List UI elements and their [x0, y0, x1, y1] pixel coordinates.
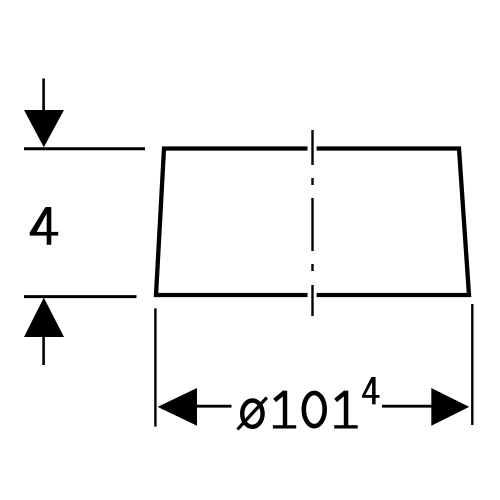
right dimension line	[382, 405, 432, 408]
left extension line vertical	[154, 308, 156, 426]
right extension line vertical	[471, 304, 473, 425]
left arrowhead	[158, 388, 197, 426]
body outline left half	[156, 149, 308, 296]
left dimension line	[196, 405, 232, 408]
centerline dot 2	[311, 264, 313, 271]
bottom extension line	[24, 295, 137, 298]
body outline right half	[317, 149, 469, 296]
right arrowhead	[431, 388, 469, 426]
centerline dash 2	[311, 198, 313, 251]
top arrowhead	[24, 110, 64, 147]
dimension text glyph 0	[304, 393, 325, 426]
dimension text 4	[30, 207, 59, 245]
superscript 4	[362, 377, 380, 404]
dimension text glyph 1 second	[334, 391, 358, 429]
top arrow stem	[42, 79, 45, 113]
centerline dash 3	[311, 285, 313, 316]
centerline dot 1	[311, 178, 313, 185]
dimension text glyph diameter sign	[238, 398, 267, 430]
bottom arrow stem	[42, 335, 45, 365]
centerline dash 1	[311, 130, 313, 316]
dimension text glyph 1	[273, 391, 296, 429]
bottom arrowhead	[24, 298, 64, 337]
top extension line	[24, 147, 145, 150]
